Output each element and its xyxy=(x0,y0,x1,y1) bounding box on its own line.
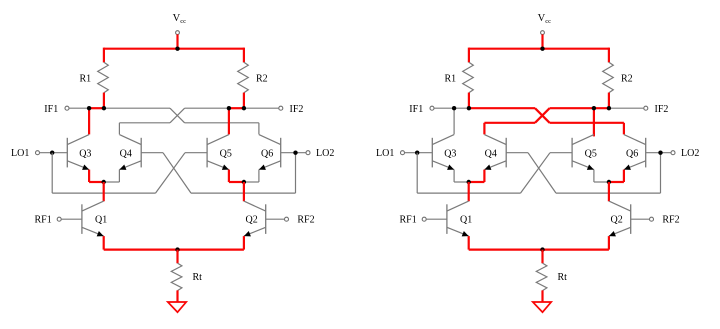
wire node B to Q2 collector xyxy=(243,182,245,201)
wire Q5 collector drop xyxy=(593,108,595,136)
junction node A (Q3/Q4 emitters) xyxy=(102,180,106,184)
svg-text:R1: R1 xyxy=(80,74,92,85)
resistor Rt xyxy=(171,263,182,291)
svg-text:Q5: Q5 xyxy=(220,149,232,160)
wire Q2 emitter to rail xyxy=(608,236,610,250)
wire Q5 emitter drop xyxy=(593,170,595,182)
IF1 terminal xyxy=(65,106,69,110)
wire LO2 run xyxy=(556,192,661,194)
wire Q3 emitter drop xyxy=(453,170,455,182)
RF2 terminal xyxy=(650,217,654,221)
svg-text:Q2: Q2 xyxy=(246,214,258,225)
resistor R1 xyxy=(98,62,109,93)
wire Vcc stub xyxy=(176,34,178,48)
svg-text:LO2: LO2 xyxy=(681,148,699,159)
svg-text:R2: R2 xyxy=(256,74,268,85)
svg-text:IF1: IF1 xyxy=(409,104,423,115)
wire Q1 emitter to rail xyxy=(103,236,105,250)
junction IF1-Q3 xyxy=(87,106,91,110)
wire Q4 emitter run xyxy=(104,181,120,183)
junction node B (Q5/Q6 emitters) xyxy=(607,180,611,184)
svg-text:RF2: RF2 xyxy=(297,214,314,225)
svg-text:IF1: IF1 xyxy=(44,104,58,115)
wire IF1 to crossover xyxy=(104,107,170,109)
transistor Q1 xyxy=(446,204,448,234)
wire LO1 run xyxy=(417,192,520,194)
transistor Q3 xyxy=(431,138,433,168)
wire LO1 drop xyxy=(416,153,418,193)
svg-text:Q6: Q6 xyxy=(261,149,273,160)
junction node B (Q5/Q6 emitters) xyxy=(242,180,246,184)
wire crossover lower-left diagonal xyxy=(535,108,550,123)
wire Q6 emitter drop xyxy=(258,170,260,182)
wire LO1 to Q3 base xyxy=(40,152,68,154)
transistor Q3 xyxy=(66,138,68,168)
wire Q4 base lead xyxy=(141,152,163,154)
wire tail rail xyxy=(104,249,244,251)
junction node A (Q3/Q4 emitters) xyxy=(467,180,471,184)
transistor Q6 xyxy=(280,138,282,168)
wire Q5 emitter run xyxy=(229,181,244,183)
wire RF1 lead xyxy=(426,218,447,220)
wire IF1 to crossover xyxy=(469,107,535,109)
transistor Q2 xyxy=(265,204,267,234)
wire Rt bottom lead xyxy=(541,290,543,302)
resistor R1 xyxy=(463,62,474,93)
ground xyxy=(533,302,551,312)
svg-text:Q1: Q1 xyxy=(460,214,472,225)
svg-text:Q4: Q4 xyxy=(120,149,132,160)
wire crossnet left xyxy=(119,122,170,124)
junction IF2-Q5 xyxy=(227,106,231,110)
LO2 terminal xyxy=(306,151,310,155)
wire crossover lower-left diagonal xyxy=(170,108,185,123)
LO1 terminal xyxy=(401,151,405,155)
wire Q5 emitter run xyxy=(594,181,609,183)
wire Q1 emitter to rail xyxy=(468,236,470,250)
wire IF2 lead xyxy=(244,107,279,109)
junction IF2-R2 xyxy=(607,106,611,110)
wire R1 top lead xyxy=(468,48,470,63)
wire Q6 emitter drop xyxy=(623,170,625,182)
wire Q5 collector drop xyxy=(228,108,230,134)
wire RF2 lead xyxy=(631,218,650,220)
svg-text:Q4: Q4 xyxy=(485,149,497,160)
RF2 terminal xyxy=(285,217,289,221)
junction IF2-R2 xyxy=(242,106,246,110)
IF2 terminal xyxy=(279,106,283,110)
wire Q5 base lead xyxy=(550,152,572,154)
resistor R2 xyxy=(603,62,614,93)
figure 2: Gilbert cell mixer, LO phase B conduction path xyxy=(376,13,699,312)
transistor Q4 xyxy=(140,138,142,168)
wire Q6 collector drop xyxy=(258,123,260,135)
wire tail rail xyxy=(469,249,609,251)
wire R2 top lead xyxy=(243,48,245,63)
wire LO1 run xyxy=(52,192,155,194)
wire Q4 base lead xyxy=(506,152,528,154)
wire Q4 emitter drop xyxy=(483,170,485,182)
svg-text:R2: R2 xyxy=(621,74,633,85)
wire Vcc stub xyxy=(541,34,543,48)
wire Q4-LO2 diagonal xyxy=(163,153,191,193)
transistor Q1 xyxy=(81,204,83,234)
svg-text:IF2: IF2 xyxy=(290,104,304,115)
transistor Q2 xyxy=(630,204,632,234)
wire Q6 emitter run xyxy=(609,181,624,183)
svg-text:LO2: LO2 xyxy=(316,148,334,159)
svg-text:Q1: Q1 xyxy=(95,214,107,225)
junction LO1 xyxy=(415,151,419,155)
transistor Q5 xyxy=(571,138,573,168)
svg-text:RF1: RF1 xyxy=(400,214,417,225)
wire IF1 node link xyxy=(89,107,104,109)
wire crossover upper-left diagonal xyxy=(170,108,185,123)
svg-text:LO1: LO1 xyxy=(11,148,29,159)
wire RF2 lead xyxy=(266,218,285,220)
svg-text:Rt: Rt xyxy=(193,272,203,283)
junction Vcc xyxy=(540,47,544,51)
wire Vcc rail xyxy=(469,48,609,50)
wire LO1 drop xyxy=(51,153,53,193)
Vcc terminal xyxy=(176,31,180,35)
svg-text:IF2: IF2 xyxy=(655,104,669,115)
wire LO1 to Q3 base xyxy=(405,152,433,154)
junction LO2 xyxy=(293,151,297,155)
junction Vcc xyxy=(175,47,179,51)
svg-text:LO1: LO1 xyxy=(376,148,394,159)
wire Q5 base lead xyxy=(185,152,207,154)
ground xyxy=(168,302,186,312)
wire node A to Q1 collector xyxy=(468,182,470,201)
wire R1 bottom lead xyxy=(468,93,470,110)
junction LO2 xyxy=(658,151,662,155)
wire crossnet left xyxy=(484,122,535,124)
junction tail xyxy=(175,247,179,251)
resistor R2 xyxy=(238,62,249,93)
IF1 terminal xyxy=(430,106,434,110)
wire Q3 emitter drop xyxy=(88,170,90,182)
wire LO2 drop xyxy=(295,153,297,193)
junction IF1-R1 xyxy=(467,106,471,110)
wire LO2 drop xyxy=(660,153,662,193)
IF2 terminal xyxy=(644,106,648,110)
wire Q4 collector drop xyxy=(118,123,120,135)
wire LO2 run xyxy=(191,192,296,194)
junction IF1-Q3 xyxy=(452,106,456,110)
wire Q6 collector drop xyxy=(623,123,625,135)
wire Q6 base lead xyxy=(281,152,306,154)
wire Q3 emitter run xyxy=(89,181,104,183)
RF1 terminal xyxy=(57,217,61,221)
junction tail xyxy=(540,247,544,251)
wire Rt bottom lead xyxy=(176,290,178,302)
wire R2 bottom lead xyxy=(608,93,610,110)
Vcc terminal xyxy=(541,31,545,35)
wire Rt top lead xyxy=(541,250,543,264)
wire Q6 emitter run xyxy=(244,181,259,183)
wire RF1 lead xyxy=(61,218,82,220)
wire IF2 node link xyxy=(229,107,244,109)
wire crossover to IF2 xyxy=(550,107,609,109)
wire crossnet right xyxy=(185,122,259,124)
wire node A to Q1 collector xyxy=(103,182,105,201)
wire Q5 emitter drop xyxy=(228,170,230,182)
figure 1: Gilbert cell mixer, LO phase A conduction path xyxy=(11,13,334,312)
wire Vcc rail xyxy=(104,48,244,50)
wire Q3 collector drop xyxy=(453,108,455,134)
transistor Q6 xyxy=(645,138,647,168)
svg-text:Q3: Q3 xyxy=(79,149,91,160)
junction LO1 xyxy=(50,151,54,155)
LO1 terminal xyxy=(36,151,40,155)
wire Q3 collector drop xyxy=(88,108,90,134)
wire crossover upper-left diagonal xyxy=(535,108,550,123)
wire Q2 emitter to rail xyxy=(243,236,245,250)
wire IF1 lead xyxy=(434,107,469,109)
junction IF2-Q5 xyxy=(592,106,596,110)
wire Rt top lead xyxy=(176,250,178,264)
wire Q4-LO2 diagonal xyxy=(528,153,556,193)
LO2 terminal xyxy=(671,151,675,155)
wire LO1-Q5 diagonal xyxy=(156,153,186,193)
svg-text:Q2: Q2 xyxy=(611,214,623,225)
wire R1 bottom lead xyxy=(103,93,105,110)
wire crossover to Q5 collector xyxy=(185,107,229,109)
wire Q3 emitter run xyxy=(454,181,469,183)
wire IF2 lead xyxy=(609,107,644,109)
wire crossnet right xyxy=(550,122,624,124)
wire Q6 base lead xyxy=(646,152,671,154)
wire IF1 lead xyxy=(69,107,89,109)
wire R1 top lead xyxy=(103,48,105,63)
RF1 terminal xyxy=(422,217,426,221)
wire Q4 emitter run xyxy=(469,181,485,183)
svg-text:R1: R1 xyxy=(445,74,457,85)
svg-text:Q3: Q3 xyxy=(444,149,456,160)
junction IF1-R1 xyxy=(102,106,106,110)
svg-text:RF1: RF1 xyxy=(35,214,52,225)
wire Q4 emitter drop xyxy=(118,170,120,182)
resistor Rt xyxy=(536,263,547,291)
wire node B to Q2 collector xyxy=(608,182,610,201)
wire R2 bottom lead xyxy=(243,93,245,110)
wire LO1-Q5 diagonal xyxy=(521,153,551,193)
wire R2 top lead xyxy=(608,48,610,63)
svg-text:RF2: RF2 xyxy=(662,214,679,225)
svg-text:Q5: Q5 xyxy=(585,149,597,160)
transistor Q5 xyxy=(206,138,208,168)
svg-text:Rt: Rt xyxy=(558,272,568,283)
transistor Q4 xyxy=(505,138,507,168)
svg-text:Q6: Q6 xyxy=(626,149,638,160)
wire Q4 collector drop xyxy=(483,123,485,135)
